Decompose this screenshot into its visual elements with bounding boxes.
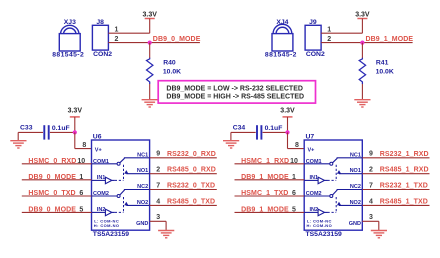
svg-text:RS232_0_TXD: RS232_0_TXD (167, 183, 215, 190)
wire DB9_0_MODE to U6 (22, 211, 92, 213)
svg-text:3.3V: 3.3V (68, 108, 83, 115)
svg-text:RS485_0_TXD: RS485_0_TXD (167, 198, 215, 205)
connector XJ3 (881545-2 jack) (52, 19, 84, 59)
switch S1 of U7 (COM1 pole) (304, 158, 337, 165)
svg-text:8: 8 (295, 142, 299, 149)
svg-text:4: 4 (369, 198, 373, 205)
svg-text:C33: C33 (20, 125, 33, 132)
svg-text:881545-2: 881545-2 (265, 51, 297, 58)
ground below R41 (354, 100, 370, 107)
svg-text:10.0K: 10.0K (163, 69, 181, 76)
svg-text:DB9_1_MODE: DB9_1_MODE (366, 36, 414, 43)
svg-text:8: 8 (82, 142, 86, 149)
power symbol 3.3V at C33 (68, 108, 83, 133)
wire R41 to ground (361, 84, 363, 99)
svg-text:H: COM-NO: H: COM-NO (307, 223, 333, 228)
control dashed link S1 of U7 (335, 165, 337, 181)
ground below R40 (142, 100, 158, 107)
IC U7 TS5A23159 body (304, 133, 362, 238)
power symbol 3.3V at C34 (280, 108, 295, 133)
svg-text:3.3V: 3.3V (142, 11, 157, 18)
svg-text:V+: V+ (95, 147, 102, 153)
svg-text:2: 2 (369, 167, 373, 174)
wire RS232_0_RXD from U6 (150, 157, 217, 159)
svg-text:C34: C34 (233, 125, 246, 132)
wire RS232_1_TXD from U7 (362, 189, 429, 191)
svg-text:7: 7 (156, 182, 160, 189)
svg-text:RS232_1_TXD: RS232_1_TXD (380, 183, 428, 190)
wire C33 to ground (18, 132, 43, 140)
pin name NC1 of U7 (337, 152, 363, 158)
wire HSMC_0_RXD to U6 (22, 163, 92, 165)
power symbol 3.3V at J8 (142, 11, 157, 33)
wire 3.3V to U7 V+ pin 8 (288, 132, 305, 148)
wire DB9_1_MODE to U7 (235, 179, 305, 181)
switch S2 of U6 (COM2 pole) (92, 190, 125, 198)
svg-text:DB9_0_MODE: DB9_0_MODE (153, 36, 201, 43)
wire junction to R41 (361, 43, 363, 58)
wire junction to R40 (149, 43, 151, 58)
svg-text:U7: U7 (306, 133, 315, 140)
ground below C33 (10, 141, 26, 148)
header J8 CON2 (92, 19, 112, 58)
wire HSMC_0_TXD to U6 (22, 195, 92, 197)
svg-text:3.3V: 3.3V (280, 108, 295, 115)
svg-text:881545-2: 881545-2 (52, 51, 84, 58)
svg-text:1: 1 (115, 27, 119, 34)
wire RS485_1_RXD from U7 (362, 173, 429, 175)
power symbol 3.3V at J9 (355, 11, 370, 33)
capacitor C33 0.1uF (20, 125, 75, 140)
header J9 CON2 (305, 19, 325, 58)
control dashed link S1 of U6 (123, 165, 125, 181)
wire U6 GND pin 3 to ground (150, 221, 167, 230)
svg-text:DB9_MODE = HIGH -> RS-485 SELE: DB9_MODE = HIGH -> RS-485 SELECTED (166, 94, 304, 101)
svg-text:RS485_1_TXD: RS485_1_TXD (380, 198, 428, 205)
wire J9.1 to 3.3V (321, 32, 362, 34)
svg-text:GND: GND (349, 221, 361, 227)
ground below U7 (371, 231, 387, 238)
truth-table note inside U7 (307, 219, 333, 229)
svg-text:4: 4 (156, 198, 160, 205)
wire 3.3V to U6 V+ pin 8 (75, 132, 92, 148)
buffer IN2 of U7 (304, 209, 336, 216)
buffer IN1 of U6 (92, 177, 124, 184)
svg-text:2: 2 (115, 36, 119, 43)
svg-text:R41: R41 (376, 59, 389, 66)
svg-text:RS485_1_RXD: RS485_1_RXD (380, 167, 429, 174)
svg-text:3.3V: 3.3V (355, 11, 370, 18)
svg-text:3: 3 (369, 214, 373, 221)
resistor R40 10.0K pulldown (147, 58, 182, 84)
svg-text:U6: U6 (93, 133, 102, 140)
pin name NC1 of U6 (124, 152, 150, 158)
wire RS485_1_TXD from U7 (362, 204, 429, 206)
svg-text:GND: GND (136, 221, 148, 227)
wire DB9_0_MODE to U6 (22, 179, 92, 181)
junction DB9_1_MODE node (360, 41, 364, 45)
junction 3.3V node at C34 (285, 130, 289, 134)
wire J8.2 net DB9_0_MODE (108, 42, 199, 44)
svg-text:H: COM-NO: H: COM-NO (94, 223, 120, 228)
svg-text:R40: R40 (163, 59, 176, 66)
pin name NC2 of U7 (337, 184, 363, 190)
truth-table note inside U6 (94, 219, 120, 229)
svg-text:0.1uF: 0.1uF (265, 125, 283, 132)
pin name NO1 of U7 (337, 168, 362, 174)
svg-text:RS485_0_RXD: RS485_0_RXD (167, 167, 216, 174)
buffer IN2 of U6 (92, 209, 124, 216)
note box: DB9_MODE selection (158, 81, 315, 103)
svg-text:TS5A23159: TS5A23159 (93, 231, 129, 238)
connector XJ4 (881545-2 jack) (265, 19, 297, 59)
svg-text:RS232_0_RXD: RS232_0_RXD (167, 151, 216, 158)
wire RS232_0_TXD from U6 (150, 189, 217, 191)
resistor R41 10.0K pulldown (359, 58, 394, 84)
wire DB9_1_MODE to U7 (235, 211, 305, 213)
control dashed link S2 of U6 (123, 197, 125, 212)
svg-text:7: 7 (369, 182, 373, 189)
wire J8.1 to 3.3V (108, 32, 149, 34)
svg-text:CON2: CON2 (306, 51, 325, 58)
wire RS485_0_RXD from U6 (150, 173, 217, 175)
pin name NO2 of U6 (124, 200, 149, 206)
svg-text:3: 3 (156, 214, 160, 221)
svg-text:CON2: CON2 (93, 51, 112, 58)
switch S2 of U7 (COM2 pole) (304, 190, 337, 198)
svg-text:DB9_MODE = LOW -> RS-232 SELEC: DB9_MODE = LOW -> RS-232 SELECTED (166, 85, 303, 92)
svg-text:0.1uF: 0.1uF (52, 125, 70, 132)
wire HSMC_1_TXD to U7 (235, 195, 305, 197)
svg-text:RS232_1_RXD: RS232_1_RXD (380, 151, 429, 158)
wire U7 GND pin 3 to ground (362, 221, 379, 230)
junction 3.3V node at C33 (73, 130, 77, 134)
junction DB9_0_MODE node (148, 41, 152, 45)
svg-text:V+: V+ (308, 147, 315, 153)
wire RS232_1_RXD from U7 (362, 157, 429, 159)
capacitor C34 0.1uF (233, 125, 288, 140)
buffer IN1 of U7 (304, 177, 336, 184)
control dashed link S2 of U7 (335, 197, 337, 212)
pin name NO1 of U6 (124, 168, 149, 174)
svg-text:1: 1 (327, 27, 331, 34)
wire R40 to ground (149, 84, 151, 99)
svg-text:2: 2 (156, 167, 160, 174)
pin name NC2 of U6 (124, 184, 150, 190)
wire HSMC_1_RXD to U7 (235, 163, 305, 165)
ground below U6 (158, 231, 174, 238)
wire C34 to ground (231, 132, 256, 140)
svg-text:TS5A23159: TS5A23159 (306, 231, 342, 238)
pin name NO2 of U7 (337, 200, 362, 206)
IC U6 TS5A23159 body (92, 133, 150, 238)
svg-text:9: 9 (156, 151, 160, 158)
svg-text:9: 9 (369, 151, 373, 158)
switch S1 of U6 (COM1 pole) (92, 158, 125, 165)
ground below C34 (223, 141, 239, 148)
svg-text:10.0K: 10.0K (376, 69, 394, 76)
svg-text:2: 2 (327, 36, 331, 43)
wire J9.2 net DB9_1_MODE (321, 42, 413, 44)
wire RS485_0_TXD from U6 (150, 204, 217, 206)
